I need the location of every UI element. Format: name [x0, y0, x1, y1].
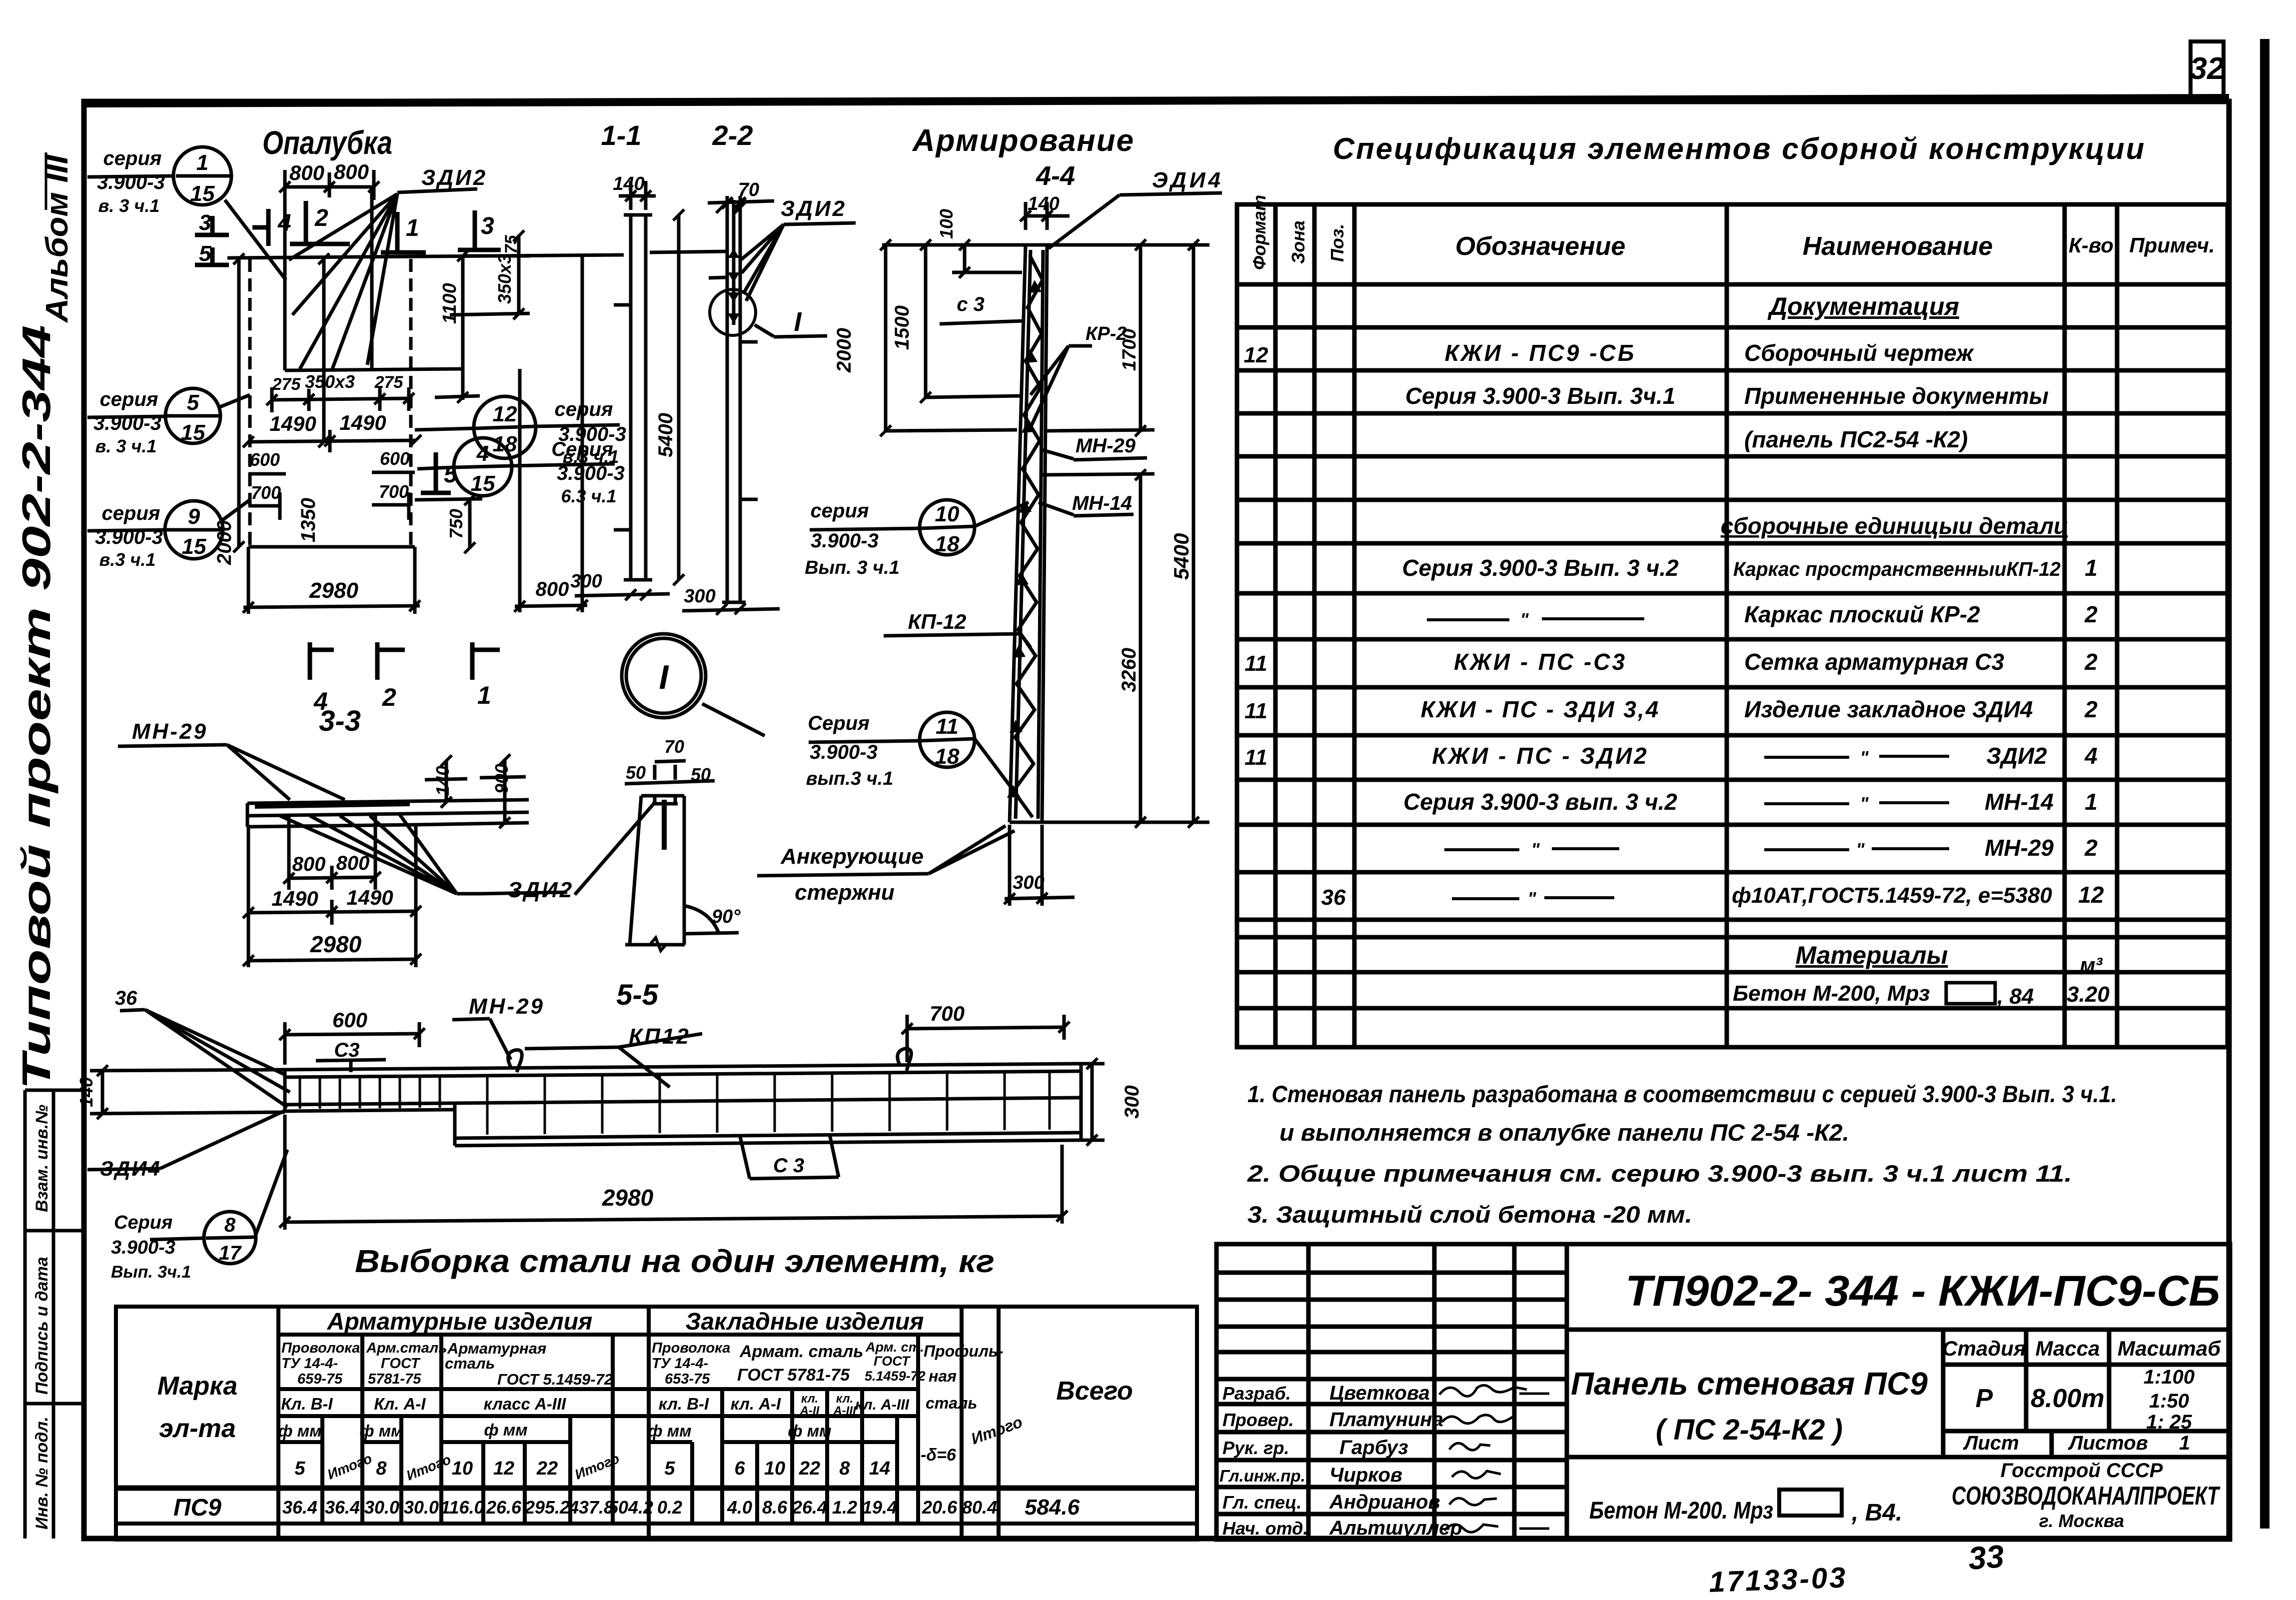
svg-text:3.900-3: 3.900-3	[93, 412, 161, 434]
svg-text:2980: 2980	[310, 931, 362, 957]
svg-text:Каркас плоский КР-2: Каркас плоский КР-2	[1744, 601, 1980, 627]
svg-text:3260: 3260	[1118, 648, 1140, 692]
svg-text:800: 800	[334, 160, 369, 183]
svg-text:МН-29: МН-29	[469, 994, 545, 1019]
svg-text:9: 9	[188, 504, 200, 529]
svg-text:Армат. сталь: Армат. сталь	[739, 1342, 863, 1361]
svg-text:стержни: стержни	[795, 880, 895, 905]
svg-text:Армирование: Армирование	[912, 123, 1135, 158]
svg-text:1490: 1490	[271, 887, 318, 910]
svg-text:серия: серия	[103, 147, 162, 169]
svg-text:Выборка стали на один эл: Выборка стали на один элемент, кг	[355, 1243, 995, 1279]
svg-text:70: 70	[664, 736, 684, 757]
svg-text:1: 1	[2085, 789, 2098, 815]
svg-text:К-во: К-во	[2069, 233, 2114, 257]
svg-text:А-II: А-II	[800, 1404, 820, 1418]
svg-text:Вып. 3ч.1: Вып. 3ч.1	[111, 1263, 191, 1282]
svg-text:Примененные документы: Примененные документы	[1744, 383, 2049, 409]
svg-text:116.0: 116.0	[440, 1497, 484, 1518]
svg-text:Госстрой СССР: Госстрой СССР	[2001, 1460, 2163, 1482]
svg-text:350х3: 350х3	[305, 371, 355, 392]
svg-text:3.900-3: 3.900-3	[557, 462, 625, 484]
svg-text:8.6: 8.6	[762, 1497, 788, 1518]
svg-text:1100: 1100	[439, 283, 460, 324]
svg-text:Закладные изделия: Закладные изделия	[686, 1309, 924, 1335]
svg-text:140: 140	[613, 173, 644, 194]
svg-text:33: 33	[1967, 1538, 2005, 1577]
svg-text:серия: серия	[100, 388, 158, 410]
svg-text:ф мм: ф мм	[484, 1421, 527, 1439]
svg-text:3: 3	[199, 210, 211, 235]
svg-text:Изделие закладное ЗДИ4: Изделие закладное ЗДИ4	[1744, 696, 2033, 722]
svg-text:Инв. № подл.: Инв. № подл.	[32, 1417, 51, 1530]
svg-text:серия: серия	[555, 398, 613, 420]
svg-text:1. Стеновая панель разработ: 1. Стеновая панель разработана в соответ…	[1247, 1081, 2117, 1107]
svg-text:3.900-3: 3.900-3	[810, 741, 878, 763]
svg-text:15: 15	[471, 471, 495, 496]
svg-text:8: 8	[839, 1458, 850, 1479]
svg-text:350х3: 350х3	[494, 254, 515, 304]
svg-text:КЖИ - ПС9 -СБ: КЖИ - ПС9 -СБ	[1445, 340, 1636, 366]
svg-text:Листов: Листов	[2068, 1432, 2148, 1454]
svg-text:14: 14	[869, 1458, 890, 1479]
svg-text:18: 18	[935, 532, 960, 556]
svg-text:и выполняется в опалубке: и выполняется в опалубке панели ПС 2-54 …	[1279, 1119, 1849, 1146]
svg-text:Серия 3.900-3 вып. 3 ч.2: Серия 3.900-3 вып. 3 ч.2	[1403, 789, 1677, 815]
svg-text:800: 800	[536, 578, 569, 600]
svg-text:5-5: 5-5	[616, 979, 659, 1011]
svg-text:2-2: 2-2	[712, 119, 753, 151]
svg-text:ЗДИ2: ЗДИ2	[1986, 743, 2047, 769]
svg-text:140: 140	[76, 1077, 96, 1107]
svg-text:2000: 2000	[833, 328, 855, 373]
svg-text:22: 22	[536, 1458, 558, 1479]
svg-text:26.4: 26.4	[792, 1497, 827, 1518]
svg-text:Разраб.: Разраб.	[1222, 1383, 1291, 1404]
svg-text:80.4: 80.4	[962, 1497, 997, 1518]
svg-text:ЗДИ2: ЗДИ2	[421, 165, 487, 190]
svg-text:1500: 1500	[891, 305, 913, 350]
svg-text:Рук. гр.: Рук. гр.	[1222, 1438, 1289, 1458]
svg-text:584.6: 584.6	[1025, 1495, 1080, 1520]
svg-text:653-75: 653-75	[665, 1371, 710, 1387]
svg-text:2: 2	[382, 683, 396, 711]
svg-text:ная: ная	[929, 1367, 957, 1385]
svg-text:26.6: 26.6	[486, 1497, 522, 1518]
svg-text:Серия: Серия	[808, 712, 870, 734]
svg-text:5.1459-72: 5.1459-72	[865, 1369, 926, 1384]
svg-text:600: 600	[332, 1008, 367, 1032]
svg-text:Примеч.: Примеч.	[2129, 233, 2215, 257]
svg-text:Бетон М-200. Мрз: Бетон М-200. Мрз	[1589, 1498, 1773, 1524]
svg-text:в.3 ч.1: в.3 ч.1	[99, 549, 156, 570]
svg-text:кл.: кл.	[836, 1392, 853, 1406]
svg-text:С3: С3	[334, 1039, 359, 1061]
svg-text:300: 300	[1121, 1085, 1143, 1119]
svg-text:3.900-3: 3.900-3	[97, 171, 165, 193]
svg-text:Опалубка: Опалубка	[262, 124, 392, 161]
svg-text:17: 17	[219, 1242, 242, 1264]
svg-text:700: 700	[251, 482, 281, 503]
svg-text:2980: 2980	[602, 1185, 654, 1211]
svg-text:295.2: 295.2	[524, 1497, 570, 1518]
svg-text:10: 10	[452, 1458, 473, 1479]
svg-text:140: 140	[432, 766, 453, 796]
svg-text:12: 12	[493, 1458, 514, 1479]
svg-text:100: 100	[936, 209, 957, 239]
svg-text:г. Москва: г. Москва	[2039, 1511, 2124, 1531]
svg-text:5400: 5400	[1169, 533, 1193, 580]
svg-text:19.4: 19.4	[862, 1497, 897, 1518]
svg-text:МН-29: МН-29	[132, 719, 208, 744]
svg-text:ПС9: ПС9	[173, 1495, 221, 1521]
svg-text:МН-29: МН-29	[1985, 835, 2054, 861]
svg-text:2. Общие примечания см.: 2. Общие примечания см. серию 3.900-3 вы…	[1247, 1160, 2072, 1187]
svg-text:18: 18	[493, 432, 517, 456]
svg-text:Взам. инв.№: Взам. инв.№	[32, 1105, 51, 1212]
svg-text:Масштаб: Масштаб	[2118, 1337, 2221, 1360]
svg-text:МН-14: МН-14	[1985, 789, 2054, 815]
svg-text:5400: 5400	[655, 413, 677, 457]
svg-text:36: 36	[115, 987, 137, 1009]
svg-text:32: 32	[2190, 51, 2225, 86]
svg-text:1.2: 1.2	[832, 1497, 857, 1518]
svg-text:300: 300	[570, 571, 602, 592]
svg-text:ГОСТ: ГОСТ	[381, 1356, 421, 1372]
svg-text:МН-14: МН-14	[1072, 492, 1132, 514]
svg-text:4-4: 4-4	[1036, 161, 1075, 191]
svg-text:3.900-3: 3.900-3	[811, 530, 879, 552]
svg-text:1490: 1490	[269, 412, 316, 435]
svg-text:2: 2	[2084, 696, 2098, 722]
svg-text:800: 800	[289, 161, 324, 184]
svg-text:1: 1	[2179, 1432, 2190, 1454]
svg-text:ЗДИ2: ЗДИ2	[781, 196, 847, 221]
svg-text:(панель ПС2-54 -К2): (панель ПС2-54 -К2)	[1744, 426, 1968, 452]
svg-text:2980: 2980	[309, 578, 358, 603]
svg-text:Анкерующие: Анкерующие	[780, 844, 924, 869]
svg-text:Формат: Формат	[1249, 195, 1269, 270]
svg-text:12: 12	[493, 402, 517, 426]
svg-text:5: 5	[664, 1458, 675, 1479]
svg-text:2: 2	[2084, 601, 2098, 627]
svg-text:": "	[1856, 839, 1865, 860]
svg-text:1: 25: 1: 25	[2146, 1411, 2192, 1433]
svg-text:1:50: 1:50	[2149, 1390, 2189, 1412]
svg-text:( ПС 2-54-К2 ): ( ПС 2-54-К2 )	[1656, 1414, 1843, 1446]
svg-text:10: 10	[935, 502, 960, 526]
svg-text:275: 275	[272, 375, 301, 394]
svg-text:ГОСТ 5781-75: ГОСТ 5781-75	[737, 1366, 850, 1385]
svg-text:, В4.: , В4.	[1851, 1500, 1902, 1526]
svg-text:": "	[1527, 888, 1536, 909]
svg-text:сталь: сталь	[926, 1394, 977, 1412]
svg-text:700: 700	[379, 481, 409, 502]
svg-text:3. Защитный слой бетон: 3. Защитный слой бетона -20 мм.	[1247, 1201, 1692, 1228]
svg-text:Серия: Серия	[114, 1212, 172, 1233]
svg-text:Типовой проект 902-2-344: Типовой проект 902-2-344	[14, 325, 58, 1090]
svg-text:1: 1	[2085, 555, 2098, 581]
svg-text:ГОСТ 5.1459-72: ГОСТ 5.1459-72	[497, 1371, 613, 1388]
svg-text:800: 800	[336, 852, 370, 874]
svg-text:": "	[1860, 793, 1869, 814]
svg-text:750: 750	[446, 509, 466, 539]
svg-text:Платунина: Платунина	[1329, 1409, 1443, 1431]
svg-text:1700: 1700	[1119, 328, 1140, 371]
svg-text:Сетка арматурная С3: Сетка арматурная С3	[1744, 649, 2005, 675]
svg-text:2: 2	[2084, 835, 2098, 861]
svg-text:": "	[1860, 747, 1869, 768]
svg-text:Подпись и дата: Подпись и дата	[32, 1257, 51, 1395]
svg-text:м³: м³	[2080, 953, 2103, 977]
svg-text:в. 3 ч.1: в. 3 ч.1	[98, 195, 160, 216]
svg-text:3.20: 3.20	[2067, 982, 2110, 1007]
svg-text:70: 70	[738, 179, 759, 200]
svg-text:22: 22	[799, 1458, 820, 1479]
svg-text:1490: 1490	[339, 411, 386, 434]
svg-text:275: 275	[374, 373, 404, 392]
svg-text:4: 4	[2084, 743, 2098, 769]
svg-text:Масса: Масса	[2036, 1337, 2100, 1360]
svg-text:Гарбуз: Гарбуз	[1339, 1437, 1408, 1459]
svg-text:Панель стеновая ПС9: Панель стеновая ПС9	[1571, 1366, 1928, 1402]
svg-text:Поз.: Поз.	[1327, 224, 1347, 262]
svg-text:С 3: С 3	[773, 1155, 804, 1177]
svg-text:Всего: Всего	[1056, 1377, 1133, 1406]
svg-text:Стадия: Стадия	[1942, 1337, 2026, 1360]
svg-text:3.900-3: 3.900-3	[111, 1237, 175, 1258]
svg-text:700: 700	[930, 1002, 965, 1025]
svg-text:в. 3 ч.1: в. 3 ч.1	[95, 436, 157, 456]
svg-text:Проволока: Проволока	[652, 1340, 730, 1356]
svg-text:2: 2	[314, 205, 328, 231]
svg-text:Наименование: Наименование	[1803, 232, 1993, 261]
svg-text:ЗДИ4: ЗДИ4	[100, 1157, 161, 1180]
svg-text:5781-75: 5781-75	[368, 1371, 421, 1387]
svg-text:Альтшуллер: Альтшуллер	[1329, 1517, 1462, 1539]
svg-text:серия: серия	[102, 502, 160, 524]
svg-text:6: 6	[734, 1458, 745, 1479]
svg-text:20.6: 20.6	[922, 1497, 958, 1518]
svg-text:6.3 ч.1: 6.3 ч.1	[561, 486, 616, 506]
svg-text:Спецификация элементов сборн: Спецификация элементов сборной конструкц…	[1333, 132, 2146, 165]
svg-text:КЖИ - ПС - ЗДИ 3,4: КЖИ - ПС - ЗДИ 3,4	[1421, 696, 1660, 722]
svg-text:600: 600	[380, 448, 410, 469]
svg-text:Провер.: Провер.	[1222, 1410, 1294, 1430]
svg-text:Р: Р	[1976, 1384, 1993, 1413]
svg-text:ф мм: ф мм	[278, 1422, 321, 1440]
svg-text:Серия 3.900-3 Вып. 3 ч.2: Серия 3.900-3 Вып. 3 ч.2	[1402, 555, 1679, 581]
svg-text:Кл. А-I: Кл. А-I	[374, 1395, 426, 1413]
svg-text:с 3: с 3	[957, 293, 985, 315]
svg-text:Нач. отд.: Нач. отд.	[1222, 1518, 1308, 1539]
svg-text:КЖИ - ПС -С3: КЖИ - ПС -С3	[1454, 649, 1627, 675]
svg-text:ф мм: ф мм	[648, 1422, 691, 1440]
svg-text:ф10АТ,ГОСТ5.1459-72, е=5380: ф10АТ,ГОСТ5.1459-72, е=5380	[1732, 883, 2052, 908]
svg-text:кл. А-I: кл. А-I	[731, 1395, 781, 1413]
svg-text:ЗДИ2: ЗДИ2	[508, 878, 574, 902]
svg-text:300: 300	[1013, 872, 1044, 893]
svg-text:Марка: Марка	[157, 1372, 238, 1401]
svg-text:11: 11	[936, 714, 959, 739]
svg-text:1:100: 1:100	[2144, 1366, 2195, 1388]
svg-text:5: 5	[187, 390, 199, 415]
svg-text:140: 140	[1028, 193, 1059, 214]
svg-text:1-1: 1-1	[601, 119, 642, 151]
svg-text:Арм. ст.: Арм. ст.	[865, 1340, 924, 1355]
svg-text:сталь: сталь	[445, 1355, 495, 1372]
svg-text:класс А-III: класс А-III	[484, 1395, 566, 1413]
svg-text:Лист: Лист	[1963, 1432, 2019, 1454]
svg-text:30.0: 30.0	[364, 1497, 399, 1518]
svg-text:Гл. спец.: Гл. спец.	[1222, 1492, 1301, 1513]
svg-text:СОЮЗВОДОКАНАЛПРОЕКТ: СОЮЗВОДОКАНАЛПРОЕКТ	[1952, 1482, 2221, 1511]
svg-text:КП-12: КП-12	[908, 610, 967, 633]
svg-text:2: 2	[2084, 649, 2098, 675]
svg-text:4: 4	[277, 210, 291, 236]
svg-text:50: 50	[691, 764, 711, 785]
svg-text:ф мм: ф мм	[359, 1422, 403, 1440]
svg-text:5: 5	[294, 1458, 305, 1479]
svg-text:90°: 90°	[712, 906, 741, 927]
svg-text:504.2: 504.2	[608, 1497, 653, 1518]
svg-text:Обозначение: Обозначение	[1455, 232, 1626, 261]
svg-text:": "	[1531, 839, 1540, 860]
svg-text:1490: 1490	[346, 886, 393, 909]
svg-text:1: 1	[406, 215, 419, 241]
svg-text:ф мм: ф мм	[788, 1422, 831, 1440]
svg-text:КЖИ - ПС - ЗДИ2: КЖИ - ПС - ЗДИ2	[1432, 743, 1649, 769]
svg-text:ТУ 14-4-: ТУ 14-4-	[281, 1356, 338, 1372]
svg-text:-δ=6: -δ=6	[921, 1446, 957, 1465]
svg-text:Профиль-: Профиль-	[924, 1342, 1004, 1360]
svg-text:5: 5	[199, 241, 211, 266]
svg-text:Чирков: Чирков	[1329, 1464, 1402, 1486]
svg-text:ГОСТ: ГОСТ	[874, 1354, 911, 1369]
svg-text:эл-та: эл-та	[159, 1414, 236, 1443]
svg-text:15: 15	[190, 181, 215, 206]
svg-text:Сборочный чертеж: Сборочный чертеж	[1744, 340, 1974, 366]
svg-text:12: 12	[1244, 343, 1268, 367]
svg-text:ТП902-2- 344 - КЖИ-ПС9-СБ: ТП902-2- 344 - КЖИ-ПС9-СБ	[1625, 1267, 2220, 1315]
svg-text:Зона: Зона	[1288, 220, 1308, 264]
svg-text:Вып. 3 ч.1: Вып. 3 ч.1	[805, 557, 900, 578]
svg-text:Андрианов: Андрианов	[1329, 1491, 1440, 1513]
svg-text:Бетон М-200, Мрз: Бетон М-200, Мрз	[1733, 981, 1930, 1006]
svg-text:А-III: А-III	[833, 1404, 857, 1418]
svg-text:Арм.сталь: Арм.сталь	[366, 1340, 447, 1356]
svg-text:36: 36	[1321, 885, 1346, 910]
svg-text:4.0: 4.0	[727, 1497, 752, 1518]
svg-text:, 84: , 84	[1997, 984, 2034, 1009]
svg-text:кл. В-I: кл. В-I	[659, 1395, 709, 1413]
svg-text:437.8: 437.8	[568, 1497, 614, 1518]
svg-text:17133-03: 17133-03	[1708, 1561, 1848, 1599]
svg-text:800: 800	[292, 853, 326, 875]
svg-text:0.2: 0.2	[657, 1497, 682, 1518]
svg-text:10: 10	[764, 1458, 785, 1479]
svg-text:1: 1	[196, 150, 208, 175]
svg-text:Цветкова: Цветкова	[1329, 1382, 1430, 1404]
svg-text:1350: 1350	[297, 498, 319, 542]
svg-text:МН-29: МН-29	[1076, 435, 1136, 457]
svg-text:12: 12	[2078, 882, 2104, 908]
svg-text:15: 15	[181, 420, 205, 445]
svg-text:Серия 3.900-3 Вып. 3ч.1: Серия 3.900-3 Вып. 3ч.1	[1405, 383, 1676, 409]
svg-text:8: 8	[224, 1214, 236, 1236]
svg-text:I: I	[794, 307, 802, 337]
svg-text:Серия: Серия	[551, 438, 613, 460]
svg-text:серия: серия	[811, 500, 869, 522]
svg-text:3.900-3: 3.900-3	[95, 526, 163, 548]
svg-text:900: 900	[491, 764, 512, 794]
svg-text:15: 15	[182, 534, 206, 559]
svg-text:вып.3 ч.1: вып.3 ч.1	[806, 768, 894, 789]
svg-text:36.4: 36.4	[325, 1497, 360, 1518]
svg-text:Кл. В-I: Кл. В-I	[281, 1395, 333, 1413]
svg-text:Арматурные изделия: Арматурные изделия	[327, 1309, 593, 1335]
svg-text:Материалы: Материалы	[1796, 941, 1948, 969]
svg-text:36.4: 36.4	[282, 1497, 317, 1518]
svg-text:Гл.инж.пр.: Гл.инж.пр.	[1219, 1467, 1305, 1485]
svg-text:": "	[1520, 609, 1529, 630]
svg-text:Каркас пространственныиКП-12: Каркас пространственныиКП-12	[1733, 558, 2061, 580]
svg-text:ЭДИ4: ЭДИ4	[1152, 168, 1223, 192]
svg-text:600: 600	[250, 449, 280, 470]
svg-text:3: 3	[481, 213, 494, 239]
svg-text:18: 18	[935, 744, 960, 769]
svg-text:659-75: 659-75	[297, 1371, 343, 1387]
svg-text:8.00т: 8.00т	[2031, 1384, 2104, 1413]
svg-text:КП12: КП12	[629, 1024, 691, 1049]
svg-text:1: 1	[477, 681, 491, 709]
svg-text:ТУ 14-4-: ТУ 14-4-	[652, 1356, 708, 1372]
svg-text:сборочные единицыи детали: сборочные единицыи детали	[1721, 513, 2068, 539]
svg-text:11: 11	[1244, 745, 1267, 770]
svg-text:300: 300	[684, 586, 715, 607]
svg-text:5: 5	[444, 461, 458, 488]
svg-text:50: 50	[626, 762, 646, 783]
svg-text:3-3: 3-3	[319, 705, 361, 737]
svg-text:Документация: Документация	[1767, 292, 1959, 320]
svg-text:11: 11	[1244, 699, 1267, 723]
svg-text:кл. А-III: кл. А-III	[855, 1397, 910, 1413]
svg-text:I: I	[659, 658, 670, 696]
svg-text:8: 8	[376, 1458, 387, 1479]
svg-text:11: 11	[1244, 651, 1267, 676]
svg-text:Проволока: Проволока	[281, 1340, 360, 1356]
svg-text:кл.: кл.	[801, 1392, 818, 1406]
svg-text:30.0: 30.0	[404, 1497, 439, 1518]
svg-text:4: 4	[476, 441, 489, 466]
